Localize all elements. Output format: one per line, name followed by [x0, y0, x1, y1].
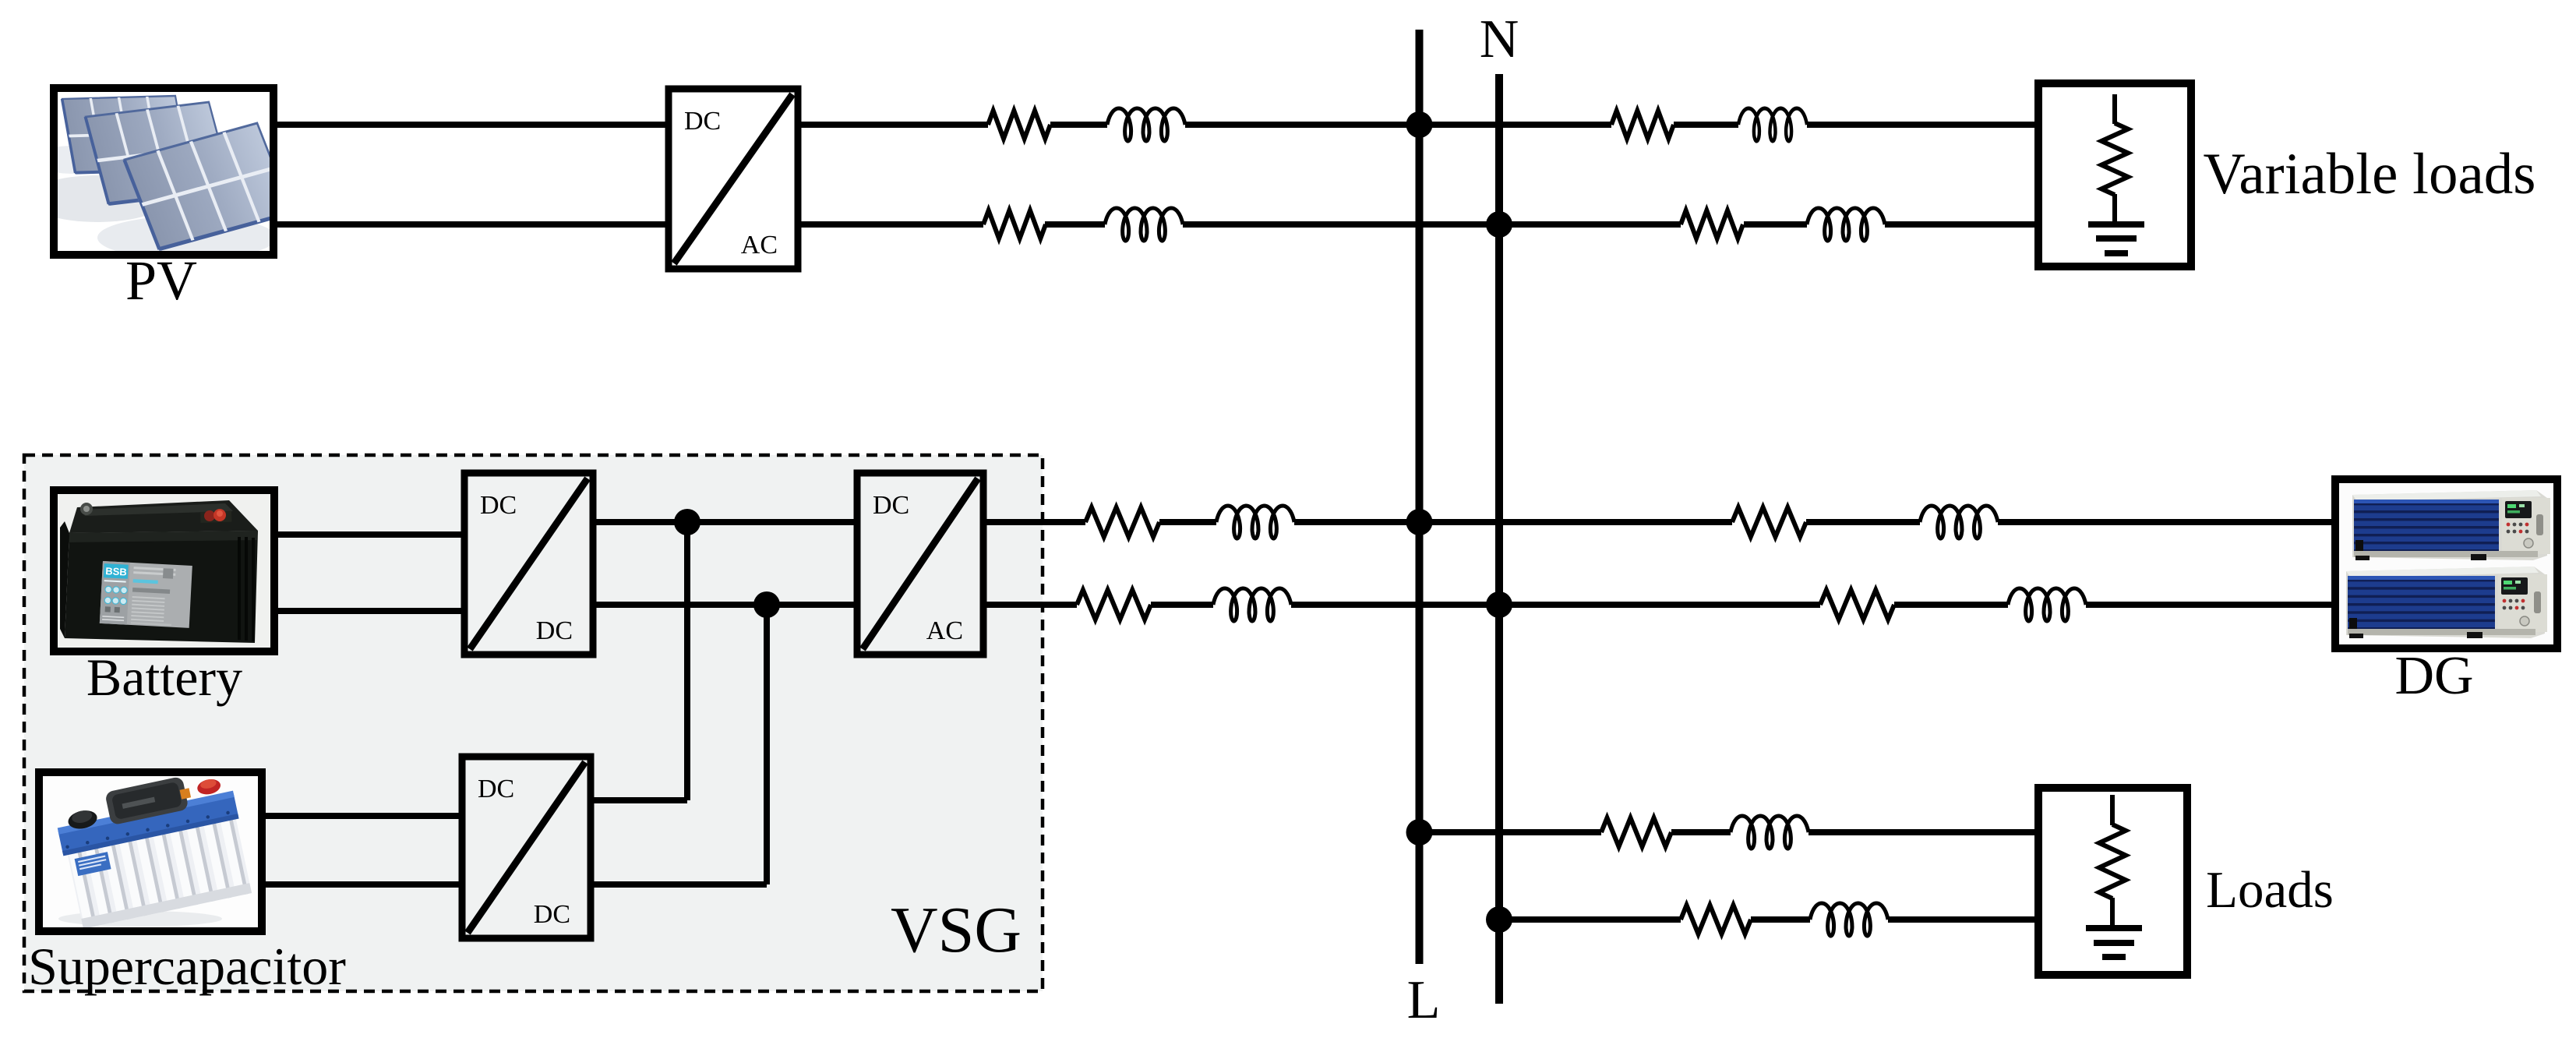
Battery image box — [54, 490, 274, 651]
wire — [273, 221, 669, 228]
wire — [1894, 602, 2008, 608]
svg-text:BSB: BSB — [105, 565, 127, 577]
converter U3 DC/DC (supercapacitor) — [462, 757, 591, 938]
junction DC bus - — [753, 591, 780, 618]
svg-text:PV: PV — [125, 249, 197, 312]
wire — [1050, 122, 1107, 128]
wire — [1998, 519, 2339, 525]
wire — [274, 531, 464, 538]
svg-text:Supercapacitor: Supercapacitor — [28, 937, 346, 996]
bus L (left vertical) — [1416, 30, 1424, 964]
junction wire1/bus L — [1406, 111, 1433, 138]
wire — [1294, 519, 1732, 525]
wire — [262, 881, 462, 888]
svg-text:Loads: Loads — [2206, 861, 2334, 919]
inductor L9 — [1731, 816, 1808, 849]
wire — [2086, 602, 2339, 608]
junction wireD/bus N — [1486, 906, 1512, 933]
inductor L8 — [2008, 588, 2086, 621]
wire — [983, 602, 1077, 608]
wire — [262, 813, 462, 819]
resistor R3 — [983, 210, 1046, 238]
wire — [1807, 122, 2042, 128]
svg-text:AC: AC — [741, 231, 778, 259]
resistor R7 — [1077, 590, 1151, 620]
resistor R4 — [1681, 210, 1743, 238]
VSG region box — [24, 455, 1043, 991]
wire — [593, 602, 857, 608]
inductor L5 — [1216, 506, 1294, 538]
resistor R8 — [1820, 590, 1894, 620]
wire — [1806, 519, 1920, 525]
wire — [591, 797, 687, 803]
wire — [1808, 829, 2042, 835]
resistor R1 — [988, 111, 1050, 139]
inductor L2 — [1738, 108, 1807, 141]
svg-text:Battery: Battery — [86, 648, 242, 707]
Battery photo — [58, 494, 270, 648]
wire — [1751, 916, 1810, 923]
junction wireC/bus L — [1406, 819, 1433, 846]
junction wire2/bus N — [1486, 211, 1512, 238]
converter U4 DC/AC (VSG inverter) — [857, 473, 983, 655]
svg-text:VSG: VSG — [891, 894, 1022, 966]
svg-text:N: N — [1480, 9, 1519, 69]
wire — [1674, 122, 1738, 128]
svg-text:DG: DG — [2394, 646, 2473, 706]
inductor L4 — [1807, 208, 1885, 241]
wire — [983, 519, 1085, 525]
wire — [273, 122, 669, 128]
PV photo — [27, 92, 293, 259]
wire — [593, 519, 857, 525]
Variable loads box — [2038, 83, 2191, 267]
junction DC bus + — [674, 509, 700, 535]
svg-text:Variable loads: Variable loads — [2204, 142, 2536, 207]
junction wireA/bus L — [1406, 509, 1433, 535]
converter U1 DC/AC (PV inverter) — [669, 89, 798, 269]
wire — [1419, 829, 1601, 835]
resistor R5 — [1085, 507, 1159, 537]
wire — [591, 881, 767, 888]
wire — [1185, 122, 1611, 128]
wire — [1291, 602, 1820, 608]
resistor R9 — [1601, 818, 1671, 847]
inductor L1 — [1107, 108, 1185, 141]
inductor L3 — [1105, 208, 1183, 241]
inductor L6 — [1920, 506, 1998, 538]
Supercapacitor image box — [39, 772, 262, 931]
resistor R10 — [1681, 906, 1751, 934]
wire — [1499, 916, 1681, 923]
wire — [798, 221, 983, 228]
svg-text:AC: AC — [926, 616, 963, 645]
wire — [1183, 221, 1681, 228]
DG photo (two grid simulators) — [2339, 483, 2553, 644]
svg-text:L: L — [1407, 970, 1441, 1030]
svg-text:DC: DC — [480, 491, 517, 520]
wire — [684, 522, 690, 800]
svg-text:DC: DC — [873, 491, 909, 520]
wire — [1159, 519, 1216, 525]
bus N (right vertical) — [1495, 74, 1503, 1004]
wire — [274, 608, 464, 614]
svg-text:DC: DC — [684, 107, 721, 136]
wire — [798, 122, 988, 128]
Supercapacitor photo — [43, 766, 258, 930]
wire — [1151, 602, 1213, 608]
inductor L7 — [1213, 588, 1291, 621]
DG image box — [2335, 479, 2557, 648]
converter U2 DC/DC (battery) — [464, 473, 593, 655]
inductor L10 — [1810, 903, 1888, 936]
svg-text:DC: DC — [536, 616, 573, 645]
resistor R2 — [1611, 111, 1674, 139]
wire — [1885, 221, 2042, 228]
svg-text:DC: DC — [478, 775, 514, 803]
wire — [1045, 221, 1105, 228]
PV image box — [54, 88, 273, 255]
wire — [764, 605, 770, 884]
svg-text:DC: DC — [534, 900, 570, 929]
resistor R6 — [1732, 507, 1806, 537]
wire — [1888, 916, 2042, 923]
wire — [1671, 829, 1731, 835]
junction wireB/bus N — [1486, 591, 1512, 618]
Loads box — [2038, 788, 2187, 975]
wire — [1744, 221, 1807, 228]
